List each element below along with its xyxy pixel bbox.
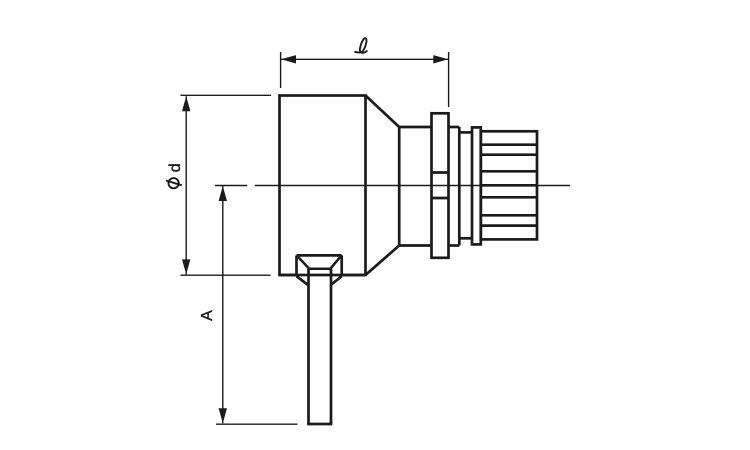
coupling flange	[432, 113, 449, 257]
cable boss right chamfer	[331, 276, 342, 285]
body bottom edge right of cable boss	[342, 274, 366, 277]
spacer ring top edge	[459, 131, 472, 134]
svg-text:A: A	[199, 310, 216, 321]
label phi (diameter symbol)	[166, 178, 182, 188]
body (main rectangular housing)	[280, 96, 366, 276]
label A	[199, 310, 216, 321]
cable boss right side	[340, 255, 343, 276]
cable left edge	[307, 269, 310, 424]
rib line 2	[481, 153, 537, 156]
cylinder 1 top edge	[399, 126, 431, 129]
label l (script ell)	[355, 38, 367, 53]
flange groove line upper	[432, 171, 449, 174]
body bottom edge left of cable boss	[280, 274, 297, 277]
rib line 7	[481, 224, 537, 227]
flange groove line lower	[432, 197, 449, 200]
dimension phi-d: dimension line	[185, 96, 187, 274]
taper bottom edge	[366, 246, 400, 276]
dimension phi-d: bottom extension line	[181, 274, 271, 276]
cable boss top edge	[297, 254, 342, 257]
taper top edge	[366, 96, 400, 128]
dimension phi-d: top extension line	[181, 94, 272, 96]
rib line 4	[481, 184, 537, 187]
cylinder 1 bottom edge	[399, 244, 431, 247]
dimension A: top arrowhead	[219, 186, 227, 201]
rib line 5	[481, 196, 537, 199]
cable boss left chamfer	[297, 276, 309, 285]
svg-text:d: d	[167, 163, 184, 172]
washer ring	[472, 127, 481, 244]
dimension A: dimension line	[222, 186, 224, 423]
taper/cylinder junction	[398, 127, 401, 246]
dimension A: bottom extension line	[216, 423, 298, 425]
dimension l: right arrowhead	[433, 55, 448, 63]
cylinder 2 right edge	[458, 127, 461, 246]
cable boss inner left slant	[297, 256, 309, 269]
cable boss left side	[295, 255, 298, 276]
cylinder 2 bottom edge	[449, 244, 460, 247]
cylinder 2 top edge	[449, 126, 460, 129]
strain-relief ribbed bushing outline	[481, 131, 537, 239]
cable top edge	[309, 268, 331, 271]
rib line 1	[481, 143, 537, 146]
rib line 6	[481, 214, 537, 217]
dimension l: left extension line	[280, 52, 282, 88]
dimension l: right extension line	[448, 52, 450, 107]
dimension phi-d: bottom arrowhead	[182, 259, 190, 274]
dimension l: dimension line	[281, 58, 448, 60]
cable bottom edge	[307, 423, 332, 426]
dimension A: bottom arrowhead	[219, 408, 227, 423]
centerline	[215, 185, 570, 187]
spacer ring bottom edge	[459, 237, 472, 240]
dimension l: left arrowhead	[281, 55, 296, 63]
cable right edge	[330, 269, 333, 424]
cable boss inner right slant	[330, 256, 341, 269]
rib line 3	[481, 170, 537, 173]
label d	[167, 163, 184, 172]
dimension phi-d: top arrowhead	[182, 96, 190, 111]
